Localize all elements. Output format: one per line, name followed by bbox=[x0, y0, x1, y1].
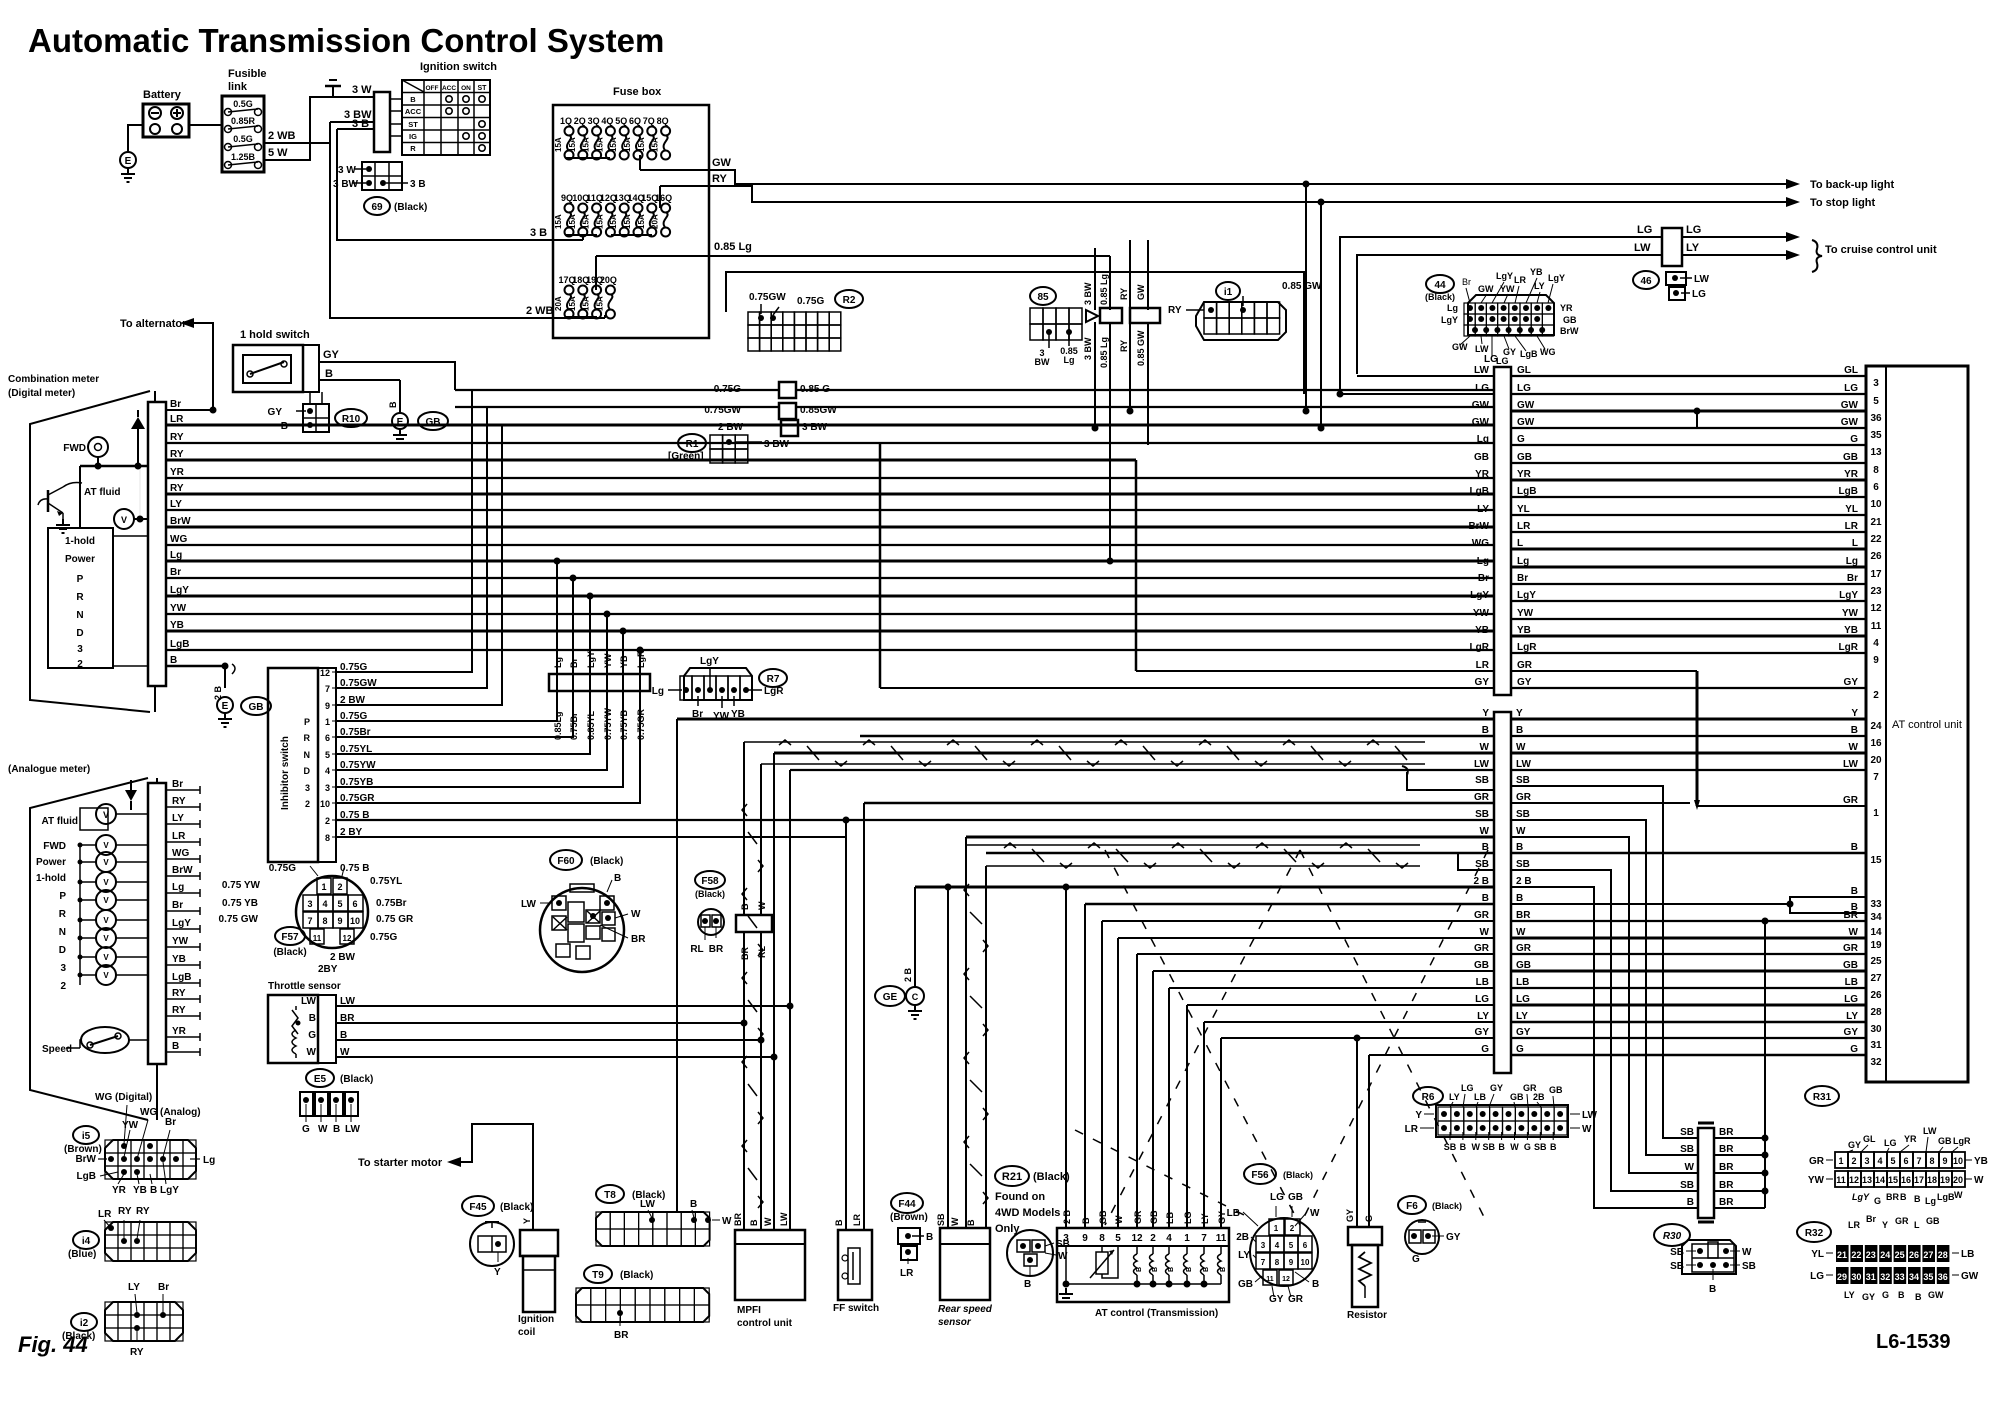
svg-text:RY: RY bbox=[170, 432, 184, 443]
svg-text:LgY: LgY bbox=[1470, 590, 1489, 601]
svg-text:1.25B: 1.25B bbox=[231, 152, 256, 162]
svg-text:9: 9 bbox=[1873, 655, 1879, 666]
svg-text:Inhibitor switch: Inhibitor switch bbox=[280, 736, 291, 810]
svg-text:0.5G: 0.5G bbox=[233, 99, 253, 109]
svg-text:P: P bbox=[77, 574, 84, 585]
svg-text:B: B bbox=[966, 1219, 976, 1226]
wire LB down to transmission pin 4 bbox=[1168, 988, 1170, 1228]
svg-text:0.85YL: 0.85YL bbox=[586, 710, 596, 740]
wire B down to transmission pin 9 bbox=[1084, 904, 1086, 1228]
svg-text:3 B: 3 B bbox=[530, 227, 547, 239]
svg-text:BR: BR bbox=[1719, 1127, 1734, 1138]
connector SB/BR (5 rows) bbox=[1698, 1128, 1714, 1218]
svg-text:3: 3 bbox=[1873, 378, 1879, 389]
svg-text:SB: SB bbox=[1742, 1261, 1756, 1272]
connector i5 (Brown) bbox=[73, 1126, 99, 1144]
svg-text:YR: YR bbox=[172, 1026, 187, 1037]
svg-text:SB: SB bbox=[1670, 1261, 1684, 1272]
svg-text:16Q: 16Q bbox=[655, 193, 672, 203]
svg-text:N: N bbox=[76, 610, 83, 621]
svg-text:69: 69 bbox=[371, 202, 383, 213]
svg-text:5: 5 bbox=[1873, 396, 1879, 407]
svg-text:Y: Y bbox=[494, 1267, 501, 1278]
svg-text:W: W bbox=[1510, 1142, 1519, 1152]
svg-text:RY: RY bbox=[170, 483, 184, 494]
svg-text:BW: BW bbox=[1035, 357, 1050, 367]
wire GY row 688 bbox=[880, 687, 1494, 689]
connector F44 (Brown) bbox=[891, 1193, 923, 1213]
svg-text:B: B bbox=[1516, 725, 1523, 736]
svg-text:LR: LR bbox=[1845, 521, 1859, 532]
svg-text:3 BW: 3 BW bbox=[333, 179, 359, 190]
svg-text:B: B bbox=[926, 1232, 933, 1243]
connector R32 bbox=[1797, 1222, 1831, 1242]
svg-text:5: 5 bbox=[325, 750, 330, 760]
wire B from 1 hold switch bbox=[319, 379, 400, 381]
svg-text:W: W bbox=[1516, 927, 1526, 938]
svg-text:SB: SB bbox=[1680, 1180, 1694, 1191]
svg-text:GW: GW bbox=[1472, 400, 1490, 411]
svg-text:B: B bbox=[690, 1199, 697, 1210]
svg-text:B: B bbox=[740, 903, 750, 910]
wire 2WB down to fuse box bbox=[330, 143, 553, 318]
svg-text:R1: R1 bbox=[686, 439, 699, 450]
wire Y to AT pin 24 bbox=[1510, 718, 1866, 721]
svg-text:B: B bbox=[388, 401, 398, 408]
svg-text:IG: IG bbox=[409, 132, 417, 141]
wire B to AT pins 33 34 bbox=[1510, 903, 1790, 905]
svg-text:2: 2 bbox=[1290, 1224, 1295, 1233]
svg-text:15A: 15A bbox=[609, 137, 618, 152]
svg-text:BR: BR bbox=[733, 1213, 743, 1226]
svg-text:GL: GL bbox=[1517, 365, 1531, 376]
svg-text:3 W: 3 W bbox=[338, 165, 356, 176]
svg-text:1: 1 bbox=[1873, 808, 1879, 819]
svg-text:LG: LG bbox=[1844, 994, 1858, 1005]
svg-text:Y: Y bbox=[522, 1218, 532, 1224]
svg-text:B: B bbox=[1168, 1267, 1175, 1272]
svg-text:Lg: Lg bbox=[172, 882, 184, 893]
svg-text:V: V bbox=[121, 515, 127, 525]
svg-text:7: 7 bbox=[307, 916, 312, 926]
wire GR row 803 (to pin 1) bbox=[864, 802, 1494, 805]
1-hold power PRND32 box bbox=[48, 528, 113, 668]
svg-text:B: B bbox=[1482, 893, 1489, 904]
svg-text:G: G bbox=[1524, 1142, 1531, 1152]
svg-text:(Black): (Black) bbox=[1283, 1170, 1313, 1180]
wire 3B to ignition switch bbox=[337, 128, 374, 130]
svg-text:BR: BR bbox=[1719, 1197, 1734, 1208]
svg-text:RY: RY bbox=[118, 1206, 132, 1217]
svg-text:W: W bbox=[1480, 826, 1490, 837]
wire to alternator bbox=[192, 323, 213, 410]
svg-text:LG: LG bbox=[1475, 994, 1489, 1005]
svg-text:GR: GR bbox=[1133, 1210, 1143, 1224]
svg-text:SB: SB bbox=[1516, 859, 1530, 870]
svg-text:WG: WG bbox=[1540, 347, 1556, 357]
svg-text:YL: YL bbox=[1517, 504, 1530, 515]
svg-text:V: V bbox=[103, 971, 109, 980]
svg-text:BrW: BrW bbox=[172, 865, 193, 876]
MPFI control unit bbox=[735, 1230, 805, 1300]
svg-text:(Black): (Black) bbox=[1432, 1201, 1462, 1211]
svg-text:LG: LG bbox=[1692, 289, 1706, 300]
svg-text:1-hold: 1-hold bbox=[65, 536, 95, 547]
wire SB down to SB/BR connector row4 bbox=[1510, 870, 1698, 1191]
svg-text:9: 9 bbox=[1942, 1156, 1947, 1166]
svg-text:3 B: 3 B bbox=[352, 118, 369, 130]
svg-text:YR: YR bbox=[1517, 469, 1532, 480]
svg-text:19: 19 bbox=[1870, 940, 1882, 951]
svg-text:3 BW: 3 BW bbox=[1083, 282, 1093, 305]
svg-text:GR: GR bbox=[1516, 943, 1532, 954]
resistor bbox=[1348, 1227, 1382, 1245]
svg-text:2: 2 bbox=[1150, 1233, 1156, 1244]
svg-text:Combination meter: Combination meter bbox=[8, 374, 99, 385]
svg-text:0.75GR: 0.75GR bbox=[636, 708, 646, 740]
connector i4 (Blue) bbox=[73, 1231, 99, 1249]
svg-text:10: 10 bbox=[320, 799, 330, 809]
svg-text:8: 8 bbox=[325, 833, 330, 843]
wire LG row 1005 bbox=[1187, 1004, 1494, 1006]
svg-text:35: 35 bbox=[1870, 430, 1882, 441]
svg-text:2 B: 2 B bbox=[1516, 876, 1532, 887]
svg-text:27: 27 bbox=[1923, 1250, 1933, 1260]
svg-text:15A: 15A bbox=[568, 214, 577, 229]
svg-text:LG: LG bbox=[1270, 1192, 1284, 1203]
svg-text:21: 21 bbox=[1870, 517, 1882, 528]
svg-text:SB: SB bbox=[1516, 809, 1530, 820]
svg-text:3: 3 bbox=[1864, 1156, 1869, 1166]
svg-text:B: B bbox=[1312, 1279, 1319, 1290]
svg-text:(Black): (Black) bbox=[500, 1202, 533, 1213]
svg-text:LgY: LgY bbox=[172, 918, 191, 929]
svg-text:2: 2 bbox=[77, 659, 83, 670]
svg-text:R2: R2 bbox=[843, 295, 856, 306]
svg-text:Br: Br bbox=[170, 567, 181, 578]
svg-text:LgB: LgB bbox=[172, 972, 191, 983]
svg-text:GW: GW bbox=[1841, 417, 1859, 428]
svg-text:7: 7 bbox=[1201, 1233, 1207, 1244]
svg-text:R30: R30 bbox=[1663, 1231, 1682, 1242]
svg-text:RY: RY bbox=[172, 796, 186, 807]
svg-text:OFF: OFF bbox=[426, 85, 439, 92]
connector R7 bbox=[759, 669, 787, 687]
svg-text:11: 11 bbox=[1266, 1276, 1274, 1283]
svg-text:LgB: LgB bbox=[1520, 349, 1538, 359]
svg-text:LB: LB bbox=[1516, 977, 1529, 988]
ground GE C bbox=[875, 986, 905, 1006]
svg-text:To alternator: To alternator bbox=[120, 318, 187, 330]
wire LY down to transmission pin 7 bbox=[1203, 1022, 1205, 1228]
svg-text:GB: GB bbox=[1926, 1216, 1940, 1226]
svg-text:GW: GW bbox=[1961, 1271, 1979, 1282]
wire GR row 921 bbox=[1102, 920, 1494, 922]
svg-text:RY: RY bbox=[1119, 288, 1129, 300]
svg-text:LY: LY bbox=[1516, 1011, 1528, 1022]
svg-text:Lg: Lg bbox=[1517, 556, 1529, 567]
svg-text:R7: R7 bbox=[767, 674, 780, 685]
svg-text:WG: WG bbox=[172, 848, 189, 859]
svg-text:coil: coil bbox=[518, 1327, 535, 1338]
transmission thermistor bbox=[1101, 1246, 1103, 1252]
svg-text:(Black): (Black) bbox=[620, 1270, 653, 1281]
svg-text:Br: Br bbox=[165, 1117, 176, 1128]
svg-text:GY: GY bbox=[1345, 1209, 1355, 1222]
wire W vertical shield to rear sensor bbox=[965, 837, 967, 1228]
svg-text:3 B: 3 B bbox=[410, 179, 426, 190]
connector T8 (Black) bbox=[596, 1185, 624, 1203]
svg-text:YW: YW bbox=[122, 1120, 139, 1131]
svg-text:1: 1 bbox=[1274, 1224, 1279, 1233]
svg-text:6: 6 bbox=[1873, 482, 1879, 493]
svg-text:FWD: FWD bbox=[63, 443, 86, 454]
svg-text:BR: BR bbox=[1719, 1162, 1734, 1173]
svg-text:LW: LW bbox=[301, 996, 317, 1007]
svg-text:SB: SB bbox=[1475, 775, 1489, 786]
svg-text:15A: 15A bbox=[554, 214, 563, 229]
svg-text:Br: Br bbox=[1462, 277, 1471, 287]
svg-text:LR: LR bbox=[1405, 1124, 1419, 1135]
inline connectors RY GW bbox=[1086, 310, 1098, 322]
svg-text:32: 32 bbox=[1880, 1272, 1890, 1282]
wire GR from bar1 down to pin 1 bbox=[1696, 671, 1699, 806]
svg-text:11: 11 bbox=[1871, 621, 1882, 632]
svg-text:(Black): (Black) bbox=[695, 889, 725, 899]
wire 2BY inhibitor row bbox=[336, 836, 846, 838]
connector F56 (Black) bbox=[1244, 1164, 1276, 1184]
svg-text:1Q: 1Q bbox=[560, 116, 572, 126]
connector 85 bbox=[1030, 287, 1056, 305]
svg-text:GY: GY bbox=[1446, 1232, 1461, 1243]
wire battery to ground bbox=[128, 125, 143, 152]
svg-text:R: R bbox=[304, 733, 311, 743]
svg-text:B: B bbox=[1081, 1217, 1091, 1224]
svg-text:3 BW: 3 BW bbox=[1083, 337, 1093, 360]
transmission internal bus bbox=[1066, 1283, 1221, 1285]
svg-text:AT control (Transmission): AT control (Transmission) bbox=[1095, 1308, 1218, 1319]
svg-text:LgY: LgY bbox=[1548, 273, 1565, 283]
svg-text:B: B bbox=[1498, 1142, 1505, 1152]
svg-text:R32: R32 bbox=[1805, 1228, 1824, 1239]
svg-text:LB: LB bbox=[1476, 977, 1489, 988]
svg-text:E5: E5 bbox=[314, 1074, 327, 1085]
meter internal wire bbox=[80, 465, 148, 468]
svg-text:V: V bbox=[103, 916, 109, 925]
svg-text:LgR: LgR bbox=[1517, 642, 1537, 653]
svg-text:35: 35 bbox=[1923, 1272, 1933, 1282]
svg-text:BR: BR bbox=[1516, 910, 1531, 921]
svg-text:10: 10 bbox=[350, 916, 360, 926]
svg-text:(Black): (Black) bbox=[1033, 1171, 1070, 1183]
svg-text:LG: LG bbox=[1183, 1212, 1193, 1225]
svg-text:SB: SB bbox=[936, 1213, 946, 1226]
svg-text:ST: ST bbox=[478, 85, 488, 92]
shield hatching band 1 bbox=[779, 740, 791, 745]
svg-text:R21: R21 bbox=[1002, 1171, 1022, 1183]
svg-text:W: W bbox=[631, 909, 641, 920]
svg-text:MPFI: MPFI bbox=[737, 1305, 761, 1316]
svg-text:GY: GY bbox=[1217, 1211, 1227, 1224]
svg-text:RL: RL bbox=[690, 944, 703, 955]
diode symbol analogue bbox=[125, 790, 137, 801]
junction GW rows bbox=[1694, 408, 1701, 415]
svg-text:27: 27 bbox=[1870, 973, 1882, 984]
svg-text:12: 12 bbox=[320, 668, 330, 678]
svg-text:W: W bbox=[722, 1216, 732, 1227]
svg-text:ST: ST bbox=[408, 120, 418, 129]
svg-text:46: 46 bbox=[1640, 276, 1652, 287]
svg-text:1: 1 bbox=[325, 717, 330, 727]
svg-text:Lg: Lg bbox=[1925, 1196, 1936, 1206]
svg-text:G: G bbox=[1481, 1044, 1489, 1055]
svg-text:BrW: BrW bbox=[75, 1154, 96, 1165]
svg-text:FF switch: FF switch bbox=[833, 1303, 879, 1314]
svg-text:F58: F58 bbox=[701, 876, 719, 887]
svg-text:control unit: control unit bbox=[737, 1318, 793, 1329]
svg-text:0.85 Lg: 0.85 Lg bbox=[1099, 274, 1109, 305]
svg-text:23: 23 bbox=[1866, 1250, 1876, 1260]
svg-text:YL: YL bbox=[1845, 504, 1858, 515]
analogue meter connector bar bbox=[148, 783, 166, 1064]
svg-text:2: 2 bbox=[337, 882, 342, 892]
wire 5W fusible link to ignition switch bbox=[264, 97, 374, 160]
wire B to AT pin 16 bbox=[1510, 735, 1866, 737]
connector 2BW/3BW inline bbox=[781, 420, 798, 436]
connector F6 (Black) bbox=[1398, 1196, 1426, 1214]
connector 0.75GW/0.85GW inline bbox=[779, 403, 796, 419]
svg-text:LW: LW bbox=[1474, 759, 1490, 770]
svg-text:LW: LW bbox=[1694, 274, 1710, 285]
svg-text:G: G bbox=[1850, 1044, 1858, 1055]
svg-text:BR: BR bbox=[614, 1330, 629, 1341]
svg-text:R6: R6 bbox=[1422, 1092, 1435, 1103]
cruise control brace and label bbox=[1812, 240, 1822, 272]
wire LG to AT pin 28 bbox=[1510, 1004, 1866, 1007]
wire GY row 1038 bbox=[1221, 1037, 1494, 1039]
svg-text:To cruise control unit: To cruise control unit bbox=[1825, 244, 1937, 256]
connector LG/LW-LY inline bbox=[1662, 228, 1682, 266]
svg-text:LgR: LgR bbox=[1953, 1136, 1971, 1146]
ground E (1 hold) bbox=[392, 413, 408, 429]
svg-text:Y: Y bbox=[1482, 708, 1489, 719]
svg-text:GB: GB bbox=[1516, 960, 1531, 971]
svg-text:36: 36 bbox=[1870, 413, 1882, 424]
svg-text:6: 6 bbox=[1303, 1241, 1308, 1250]
svg-text:6: 6 bbox=[1903, 1156, 1908, 1166]
svg-text:20A: 20A bbox=[651, 214, 660, 229]
svg-text:LB: LB bbox=[1474, 1092, 1486, 1102]
svg-text:33: 33 bbox=[1895, 1272, 1905, 1282]
svg-text:GY: GY bbox=[1862, 1292, 1875, 1302]
connector R31 bbox=[1805, 1086, 1839, 1106]
svg-text:W: W bbox=[1954, 1190, 1963, 1200]
fusible link FL bbox=[222, 96, 264, 172]
svg-text:LG: LG bbox=[1686, 224, 1701, 236]
svg-text:B: B bbox=[150, 1185, 157, 1196]
inhibitor wires to inline connector bar bbox=[336, 561, 557, 721]
svg-text:GB: GB bbox=[1563, 315, 1577, 325]
svg-text:G: G bbox=[1517, 434, 1525, 445]
svg-text:ON: ON bbox=[461, 85, 471, 92]
svg-text:LgR: LgR bbox=[1470, 642, 1490, 653]
wire 1hold to R10 bbox=[309, 392, 311, 404]
shield crossing dashed lines bbox=[1105, 850, 1300, 1225]
svg-text:Br: Br bbox=[172, 900, 183, 911]
svg-text:23: 23 bbox=[1870, 586, 1882, 597]
svg-text:LR: LR bbox=[1514, 275, 1526, 285]
svg-text:LG: LG bbox=[1461, 1083, 1474, 1093]
wire GR row 954 bbox=[1137, 953, 1494, 955]
svg-text:V: V bbox=[103, 878, 109, 887]
svg-text:B: B bbox=[1900, 1192, 1907, 1202]
svg-text:Y: Y bbox=[1516, 708, 1523, 719]
wire 2B down from battery feed bbox=[329, 122, 331, 170]
wire LG to cruise control bbox=[1340, 237, 1662, 394]
connector bar 2 (middle) bbox=[1494, 712, 1511, 1073]
svg-text:YB: YB bbox=[1844, 625, 1858, 636]
svg-text:24: 24 bbox=[1870, 721, 1882, 732]
svg-text:8: 8 bbox=[322, 916, 327, 926]
svg-text:N: N bbox=[59, 927, 66, 938]
svg-text:19: 19 bbox=[1940, 1175, 1950, 1185]
svg-text:P: P bbox=[59, 891, 66, 902]
svg-text:SB: SB bbox=[1680, 1127, 1694, 1138]
svg-text:D: D bbox=[304, 766, 311, 776]
svg-text:i4: i4 bbox=[82, 1236, 91, 1247]
svg-text:LB: LB bbox=[1227, 1208, 1240, 1219]
svg-text:link: link bbox=[228, 81, 248, 93]
svg-text:0.5G: 0.5G bbox=[233, 134, 253, 144]
svg-text:LW: LW bbox=[1582, 1110, 1598, 1121]
svg-text:YB: YB bbox=[619, 655, 629, 668]
svg-text:0.75 B: 0.75 B bbox=[340, 863, 369, 874]
svg-text:0.75YW: 0.75YW bbox=[603, 707, 613, 740]
svg-text:LW: LW bbox=[1474, 365, 1490, 376]
wire GR down to transmission pin 8 bbox=[1101, 921, 1103, 1228]
svg-text:YR: YR bbox=[1904, 1134, 1917, 1144]
svg-text:GW: GW bbox=[1136, 284, 1146, 300]
1 hold switch bbox=[233, 345, 303, 392]
wire LB to AT pin 26 bbox=[1510, 987, 1866, 989]
svg-text:GB: GB bbox=[1474, 452, 1489, 463]
svg-text:15A: 15A bbox=[609, 214, 618, 229]
analogue gauges bbox=[96, 835, 116, 855]
connector F57 (Black) bbox=[296, 876, 368, 948]
svg-text:sensor: sensor bbox=[938, 1317, 972, 1328]
svg-text:32: 32 bbox=[1870, 1057, 1882, 1068]
inhibitor switch box bbox=[268, 668, 318, 862]
svg-text:GR: GR bbox=[1474, 792, 1490, 803]
wires meter internals bbox=[113, 535, 148, 537]
svg-text:9: 9 bbox=[1082, 1233, 1088, 1244]
svg-text:1: 1 bbox=[321, 882, 326, 892]
svg-text:33: 33 bbox=[1870, 899, 1882, 910]
svg-text:GY: GY bbox=[1844, 677, 1859, 688]
svg-text:LW: LW bbox=[779, 1212, 789, 1226]
svg-text:LW: LW bbox=[345, 1124, 361, 1135]
svg-text:15A: 15A bbox=[595, 137, 604, 152]
svg-text:(Black): (Black) bbox=[273, 947, 306, 958]
wire R1 3BW down to GY row bbox=[879, 443, 882, 688]
svg-text:4: 4 bbox=[1873, 638, 1879, 649]
wire to starter motor bbox=[459, 1124, 533, 1230]
svg-text:30: 30 bbox=[1851, 1272, 1861, 1282]
svg-text:GL: GL bbox=[1863, 1134, 1876, 1144]
ground E GB (meter B) bbox=[217, 697, 233, 713]
svg-text:12: 12 bbox=[1849, 1175, 1859, 1185]
connector R6 bbox=[1413, 1087, 1443, 1105]
